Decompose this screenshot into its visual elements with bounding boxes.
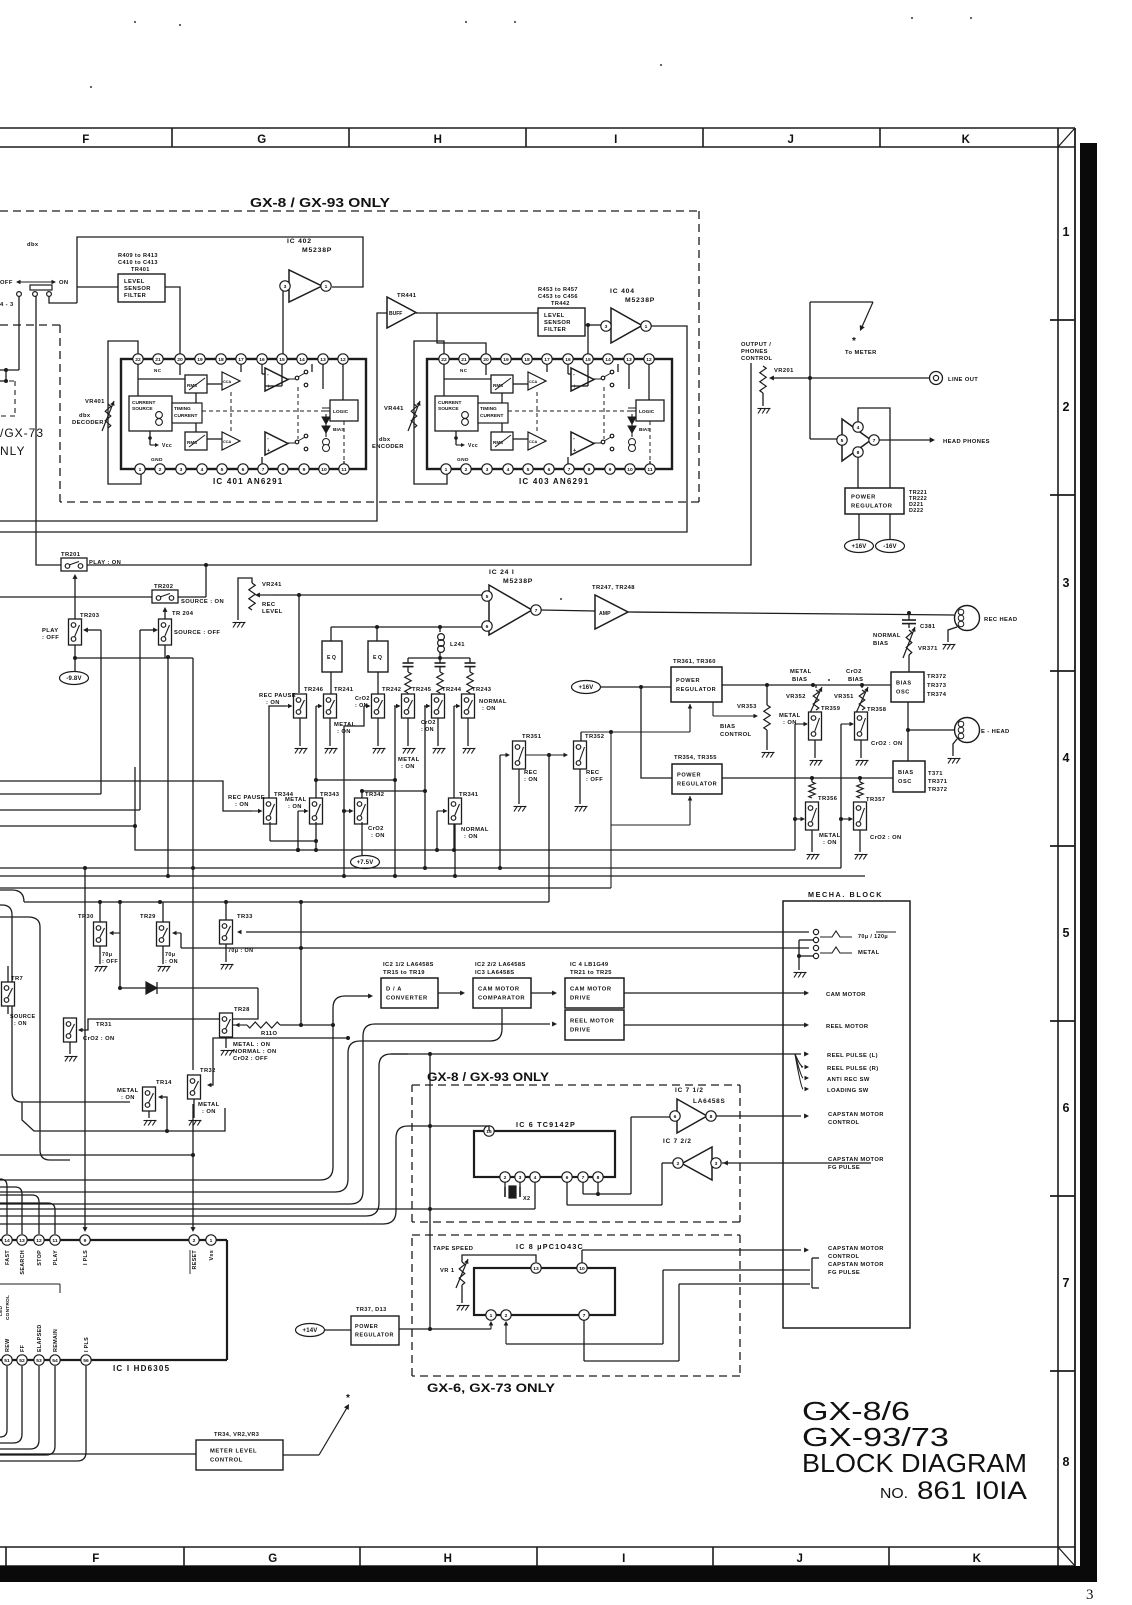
transistor switch TR202	[152, 584, 224, 605]
wire TR203 to TR201 arrow	[73, 574, 78, 619]
svg-text:TR357: TR357	[866, 797, 885, 803]
svg-text:NC: NC	[460, 368, 468, 373]
svg-text:VR371: VR371	[918, 646, 938, 652]
label CrO2 : ON below TR245	[421, 720, 436, 733]
svg-text:I PLS: I PLS	[83, 1250, 89, 1265]
svg-text:CrO2: CrO2	[846, 669, 862, 675]
wire IC404 output loop to left bus	[0, 326, 687, 532]
wire left rounded bus B	[0, 917, 70, 1160]
svg-text:-: -	[267, 436, 269, 442]
svg-text:dbx: dbx	[379, 437, 391, 443]
grounds under record switch row 1	[295, 718, 476, 754]
svg-text:IC 403 AN6291: IC 403 AN6291	[519, 477, 589, 486]
svg-text:TR201: TR201	[61, 552, 81, 558]
wire collector row y791	[360, 789, 427, 798]
svg-text:TR401: TR401	[131, 267, 150, 273]
svg-text:CrO2 : ON: CrO2 : ON	[83, 1036, 115, 1042]
svg-text:METAL : ON: METAL : ON	[233, 1042, 270, 1048]
svg-text:REC: REC	[524, 770, 538, 776]
svg-text:54: 54	[52, 1358, 58, 1364]
wire bundle w4 to reel pulse	[0, 1054, 408, 1216]
svg-text:REMAIN: REMAIN	[53, 1329, 59, 1352]
wire EQ2 to TR242	[377, 672, 379, 694]
wire +16V branch to regulator 2	[641, 687, 672, 778]
wire collector row y780	[314, 778, 397, 798]
svg-text:6: 6	[548, 467, 551, 473]
svg-text:56: 56	[83, 1358, 89, 1364]
svg-text:POWER: POWER	[677, 773, 701, 779]
wire IC401 pin22 loop to pin1	[108, 341, 141, 484]
wire into headphone pin5	[810, 438, 837, 440]
svg-text:/GX-73: /GX-73	[0, 426, 44, 440]
label TR372 TR373 TR374	[927, 674, 947, 698]
wire meter control to meter arrow	[283, 1393, 350, 1455]
svg-text:ELAPSED: ELAPSED	[37, 1324, 43, 1352]
svg-text:13: 13	[533, 1266, 539, 1272]
label CAPSTAN MOTOR CONTROL (ic8)	[828, 1246, 884, 1260]
wire VR241 wiper to IC241 pin5	[273, 593, 482, 597]
svg-text:I: I	[622, 1553, 626, 1565]
power regulator (phones) box	[845, 488, 904, 514]
403 RMS block lower	[491, 432, 513, 450]
svg-text:LED: LED	[0, 1305, 4, 1316]
svg-text:BIAS: BIAS	[792, 677, 807, 683]
svg-text:FILTER: FILTER	[544, 327, 567, 333]
wire input node to filter	[77, 286, 118, 288]
wire bundle w1 to D/A converter	[0, 994, 373, 1181]
wire diode line to TR31 control	[78, 988, 258, 1032]
svg-text:TR441: TR441	[397, 293, 417, 299]
op-amp IC7 1/2 LA6458S	[670, 1087, 726, 1133]
svg-text:3: 3	[1063, 576, 1070, 590]
svg-text:METAL: METAL	[198, 1102, 220, 1108]
wire IC6 pin6 to IC7 2/2	[567, 1163, 673, 1205]
transistor switch TR246	[294, 687, 324, 718]
wire IC241 output to AMP	[541, 610, 595, 611]
svg-text:GX-8 / GX-93 ONLY: GX-8 / GX-93 ONLY	[250, 196, 391, 210]
svg-text:1: 1	[1063, 225, 1070, 239]
label REC PAUSE : ON row1	[259, 693, 296, 706]
transistor switch TR357	[854, 797, 902, 852]
svg-text:5: 5	[486, 594, 489, 600]
svg-text:3: 3	[519, 1175, 522, 1181]
wire line out horizontal	[799, 377, 930, 379]
wire mecha row 70u	[237, 930, 809, 935]
svg-text:C381: C381	[920, 624, 936, 630]
transistor switch TR352	[574, 734, 605, 804]
svg-text:2: 2	[193, 1238, 196, 1244]
svg-text:REC: REC	[586, 770, 600, 776]
svg-text:M5238P: M5238P	[302, 247, 332, 254]
svg-text:18: 18	[218, 357, 224, 363]
403 op-amp upper	[571, 368, 594, 391]
label IC2 2/2 LA6458S IC3 LA6458S	[475, 962, 526, 976]
svg-text:BIAS: BIAS	[720, 724, 735, 730]
black border band bottom	[0, 1566, 1097, 1582]
svg-text:TR359: TR359	[821, 706, 841, 712]
svg-text:70μ: 70μ	[102, 952, 113, 958]
IC1 HD6305 chip outline	[0, 1240, 227, 1360]
svg-text:22: 22	[135, 357, 141, 363]
label R453 to R457 C453 to C456 TR442	[538, 287, 578, 307]
wire AMP output to rec head	[628, 611, 954, 615]
transistor switch TR242	[372, 687, 402, 718]
cam motor drive box	[565, 978, 624, 1008]
svg-text:*: *	[852, 336, 856, 347]
IC1 top pins	[2, 1235, 216, 1245]
ground below TR14	[144, 1120, 148, 1126]
svg-text:IC 401 AN6291: IC 401 AN6291	[213, 477, 283, 486]
svg-text:: ON: : ON	[401, 764, 415, 770]
transistor switch TR244	[432, 687, 462, 718]
svg-text:CCA: CCA	[223, 380, 231, 384]
403 CCA amp lower	[528, 432, 546, 450]
label NORMAL : ON right of TR243	[479, 699, 507, 712]
IC1 top pin labels	[5, 1250, 215, 1275]
resistor above TR356	[809, 778, 815, 798]
rec head	[948, 606, 1017, 643]
401 op-amp upper	[265, 368, 288, 391]
IC1 bottom pin labels	[5, 1324, 90, 1352]
svg-text:IC 8 μPC1O43C: IC 8 μPC1O43C	[516, 1242, 584, 1251]
svg-text:IC 4 LB1G49: IC 4 LB1G49	[570, 962, 609, 968]
svg-text:-: -	[267, 372, 269, 378]
svg-text:1: 1	[490, 1313, 493, 1319]
svg-text:GND: GND	[457, 457, 469, 463]
wire row1 control drops	[269, 706, 454, 876]
wire regulator3 output to IC8	[399, 1321, 493, 1329]
svg-text:TR372: TR372	[928, 787, 947, 793]
labels reel pulse anti rec loading	[827, 1053, 879, 1094]
svg-text:*: *	[346, 1393, 350, 1404]
wire left edge into TR202	[0, 596, 152, 598]
svg-text:TR361, TR360: TR361, TR360	[673, 659, 716, 665]
svg-text:J: J	[797, 1553, 804, 1565]
led control bracket	[0, 1284, 60, 1320]
401 top pins 22-12	[133, 354, 348, 373]
svg-text:NLY: NLY	[0, 444, 25, 458]
power regulator 2 box	[672, 764, 722, 794]
ground below TR31	[65, 1056, 69, 1062]
svg-text:9: 9	[84, 1238, 87, 1244]
ground below VR201	[758, 408, 762, 414]
svg-text:: OFF: : OFF	[42, 635, 59, 641]
svg-text:FILTER: FILTER	[124, 293, 147, 299]
svg-text:15: 15	[279, 357, 285, 363]
svg-text:FG PULSE: FG PULSE	[828, 1165, 860, 1171]
supply +7.5V	[351, 856, 380, 869]
svg-text:14: 14	[4, 1238, 10, 1244]
403 switch contacts upper	[594, 370, 614, 387]
ground below e-head	[948, 758, 952, 764]
svg-text:+: +	[573, 384, 576, 390]
svg-text:CCA: CCA	[223, 440, 231, 444]
wire dbx switch to play line	[36, 296, 61, 565]
svg-text:VR351: VR351	[834, 694, 854, 700]
wire VR241 node down to TR246	[298, 595, 300, 693]
ground below VR353	[762, 752, 766, 758]
svg-text:IC 402: IC 402	[287, 238, 312, 245]
wire IC6 pin16 to +14V riser	[428, 1124, 489, 1131]
svg-text:TR442: TR442	[551, 301, 570, 307]
svg-text:IC 24 I: IC 24 I	[489, 569, 515, 576]
wire dbx to filter input node	[49, 296, 77, 303]
401 CCA amp upper	[222, 372, 240, 390]
wire BUFF node to IC403 pin 20	[437, 313, 486, 354]
transistor switch TR32	[188, 1068, 220, 1118]
svg-text:TR244: TR244	[442, 687, 462, 693]
svg-text:: ON: : ON	[121, 1095, 135, 1101]
svg-text:12: 12	[340, 357, 346, 363]
svg-text:3: 3	[486, 467, 489, 473]
svg-text:+: +	[267, 384, 270, 390]
transistor switch TR343	[310, 792, 340, 824]
label IC4 LB1649 TR21 to TR25	[570, 962, 612, 976]
bias osc 1 box	[891, 672, 924, 702]
wire comparator to cam motor drive	[531, 991, 557, 996]
403 Vcc arrow	[454, 436, 478, 449]
svg-text:: OFF: : OFF	[102, 959, 118, 965]
svg-text:REGULATOR: REGULATOR	[676, 687, 716, 693]
401 RMS block lower	[185, 432, 207, 450]
svg-text:-: -	[573, 436, 575, 442]
meter level control box	[196, 1440, 283, 1470]
svg-text:8: 8	[1063, 1455, 1070, 1469]
svg-text:C410 to C413: C410 to C413	[118, 260, 158, 266]
wire IC403 pin22 loop to pin1	[414, 341, 447, 484]
wire IC8 pin2 loop	[504, 1270, 810, 1344]
svg-text:SOURCE : OFF: SOURCE : OFF	[174, 630, 220, 636]
401 internal wires	[138, 364, 344, 464]
svg-text:BIAS: BIAS	[873, 641, 888, 647]
label T371 TR371 TR372	[928, 771, 948, 793]
svg-text:BIAS: BIAS	[898, 770, 914, 776]
svg-text:20: 20	[177, 357, 183, 363]
svg-text:+14V: +14V	[303, 1328, 318, 1334]
svg-text:LEVEL: LEVEL	[262, 609, 283, 615]
label CrO2 : ON above TR242	[355, 696, 370, 709]
svg-text:7: 7	[582, 1175, 585, 1181]
label NORMAL : ON below TR341	[461, 827, 489, 840]
wire feedback loop IC402 to input node	[77, 237, 363, 303]
diode D	[118, 933, 258, 994]
svg-text:LOADING SW: LOADING SW	[827, 1088, 869, 1094]
svg-text:16: 16	[565, 357, 571, 363]
label CrO2 BIAS	[846, 669, 863, 683]
svg-text:IC 6 TC9142P: IC 6 TC9142P	[516, 1120, 576, 1129]
filter TR442 level sensor filter box	[538, 308, 585, 336]
wire TR203 TR204 emitters to -9.8V	[73, 645, 165, 672]
svg-text:IC 7 2/2: IC 7 2/2	[663, 1138, 692, 1145]
401 RMS block upper	[185, 375, 207, 393]
svg-text:H: H	[444, 1553, 453, 1565]
svg-text:5: 5	[527, 467, 530, 473]
svg-text:TR15 to TR19: TR15 to TR19	[383, 970, 425, 976]
svg-text:53: 53	[36, 1358, 42, 1364]
transistor switch TR358	[855, 707, 903, 758]
svg-text:CONVERTER: CONVERTER	[386, 995, 428, 1001]
svg-text:18: 18	[524, 357, 530, 363]
401 logic block	[330, 400, 358, 421]
svg-text:19: 19	[197, 357, 203, 363]
wire bias bus regulator1 to bias osc 1	[722, 683, 891, 687]
wire left edge stub y826	[0, 824, 137, 828]
svg-text:CAM MOTOR: CAM MOTOR	[570, 987, 612, 993]
svg-text:12: 12	[36, 1238, 42, 1244]
svg-text:PLAY: PLAY	[53, 1250, 59, 1265]
transistor switch TR341	[449, 792, 479, 824]
svg-text:9: 9	[303, 467, 306, 473]
op-amp IC404 M5238P	[601, 288, 655, 343]
svg-text:NORMAL: NORMAL	[873, 633, 901, 639]
svg-text:9: 9	[609, 467, 612, 473]
svg-text:POWER: POWER	[676, 678, 700, 684]
svg-text:NC: NC	[154, 368, 162, 373]
svg-text:: ON: : ON	[202, 1109, 216, 1115]
filter TR401 level sensor filter box	[118, 274, 165, 302]
wires IC1 top-left pins to left edge	[0, 1179, 55, 1234]
svg-text:ON: ON	[59, 280, 69, 286]
svg-text:14: 14	[605, 357, 611, 363]
transistor switch TR359	[779, 706, 841, 758]
svg-text:GND: GND	[151, 457, 163, 463]
svg-text:5: 5	[221, 467, 224, 473]
401 internal dashed control lines	[202, 387, 344, 461]
op-amp IC7 2/2	[663, 1138, 721, 1180]
wire bus row C	[0, 874, 865, 878]
svg-text:M5238P: M5238P	[503, 578, 533, 585]
wire headphone output	[879, 437, 990, 445]
wire meter level line	[0, 1453, 196, 1455]
svg-text:CURRENT: CURRENT	[480, 413, 504, 419]
svg-text:ANTI REC SW: ANTI REC SW	[827, 1077, 870, 1083]
wire bus row A +7.5V	[135, 767, 795, 852]
eq box 2	[368, 627, 388, 672]
label To METER	[845, 336, 877, 356]
svg-text:G: G	[268, 1553, 277, 1565]
svg-text:REEL PULSE (L): REEL PULSE (L)	[827, 1053, 878, 1059]
transistor switch TR30	[78, 902, 118, 965]
svg-text:14: 14	[299, 357, 305, 363]
svg-text:TR21 to TR25: TR21 to TR25	[570, 970, 612, 976]
svg-text:K: K	[973, 1553, 982, 1565]
wire bundle w2 to comparator	[0, 1009, 502, 1192]
svg-text:SOURCE: SOURCE	[10, 1014, 35, 1020]
dashed boundary GX-8/GX-93 only region	[0, 211, 699, 502]
wire TR204 to TR202 arrow	[163, 607, 168, 619]
wire reel pulse L with branches	[391, 1052, 809, 1092]
svg-text:+16V: +16V	[579, 685, 594, 691]
border frame right column with row numbers	[1050, 128, 1075, 1566]
svg-text:8: 8	[282, 467, 285, 473]
svg-text:8: 8	[588, 467, 591, 473]
op-amp IC402 M5238P	[280, 238, 332, 302]
svg-text:8: 8	[857, 450, 860, 456]
wire feedback into regulator1	[581, 704, 692, 734]
svg-text:CURRENT: CURRENT	[132, 400, 156, 406]
potentiometer VR352	[786, 685, 822, 713]
svg-text:REC HEAD: REC HEAD	[984, 617, 1017, 623]
svg-text:6: 6	[566, 1175, 569, 1181]
403 RMS block upper	[491, 375, 513, 393]
wire regulator2 to bias osc 2	[722, 776, 893, 780]
border frame top band	[0, 128, 1075, 147]
svg-text:FF: FF	[20, 1344, 26, 1352]
svg-text:7: 7	[1063, 1276, 1070, 1290]
svg-text:IC2 2/2 LA6458S: IC2 2/2 LA6458S	[475, 962, 526, 968]
svg-text:SENSOR: SENSOR	[544, 320, 571, 326]
svg-text:COMPARATOR: COMPARATOR	[478, 995, 525, 1001]
svg-text:C453 to C456: C453 to C456	[538, 294, 578, 300]
svg-text:10: 10	[579, 1266, 585, 1272]
svg-text:CAM MOTOR: CAM MOTOR	[478, 987, 520, 993]
bias osc 2 box	[893, 761, 925, 792]
svg-text:1: 1	[645, 324, 648, 330]
svg-text:K: K	[962, 134, 971, 146]
transistor switch TR201	[61, 552, 121, 571]
reel motor drive box	[565, 1010, 624, 1040]
svg-text:CAPSTAN MOTOR: CAPSTAN MOTOR	[828, 1157, 884, 1163]
svg-text:METAL: METAL	[398, 757, 420, 763]
svg-text:1: 1	[445, 467, 448, 473]
wire arrow into TR203 from control	[0, 628, 101, 795]
svg-text:: ON: : ON	[482, 706, 496, 712]
svg-text:VR201: VR201	[774, 368, 794, 374]
svg-text:CrO2 : OFF: CrO2 : OFF	[233, 1056, 268, 1062]
svg-text:TR372: TR372	[927, 674, 946, 680]
svg-text:TR373: TR373	[927, 683, 947, 689]
svg-text:SEARCH: SEARCH	[20, 1250, 26, 1275]
black border bar right	[1080, 143, 1097, 1581]
wire line out junction vertical	[808, 302, 812, 439]
svg-text:3: 3	[1086, 1587, 1094, 1600]
403 current source block	[435, 396, 478, 431]
wire feedback into regulator2	[611, 732, 692, 888]
svg-text:2: 2	[505, 1313, 508, 1319]
ground below rec head	[943, 644, 947, 650]
wire BUFF output to level sensor filter 2	[416, 312, 538, 314]
svg-text:: OFF: : OFF	[586, 777, 603, 783]
svg-text:TR34, VR2,VR3: TR34, VR2,VR3	[214, 1432, 259, 1438]
svg-text:5: 5	[1063, 926, 1070, 940]
svg-text:20: 20	[483, 357, 489, 363]
svg-text:4: 4	[201, 467, 204, 473]
svg-text:NORMAL: NORMAL	[461, 827, 489, 833]
svg-text:BUFF: BUFF	[389, 311, 402, 317]
svg-text:GX-8 / GX-93 ONLY: GX-8 / GX-93 ONLY	[427, 1070, 549, 1084]
svg-text:: ON: : ON	[421, 727, 434, 733]
svg-text:NO.: NO.	[880, 1485, 908, 1502]
svg-text:TR37, D13: TR37, D13	[356, 1307, 387, 1313]
svg-text:M5238P: M5238P	[625, 297, 655, 304]
wire filter2 output to IC404	[585, 323, 601, 354]
wire arrow into IC1 pin9	[83, 868, 88, 1232]
403 bottom pins 1-11	[441, 464, 655, 474]
svg-text:TR245: TR245	[412, 687, 432, 693]
IC 401 AN6291 chip outline	[121, 359, 366, 469]
svg-text:13: 13	[19, 1238, 25, 1244]
svg-text:POWER: POWER	[355, 1324, 378, 1330]
svg-text:REEL MOTOR: REEL MOTOR	[570, 1019, 615, 1025]
svg-text:REC PAUSE: REC PAUSE	[259, 693, 296, 699]
svg-text:TR242: TR242	[382, 687, 401, 693]
svg-text:+7.5V: +7.5V	[357, 860, 374, 866]
capacitor C381	[902, 613, 936, 630]
svg-text:RESET: RESET	[192, 1250, 198, 1270]
401 op-amp lower	[265, 432, 288, 455]
svg-text:SENSOR: SENSOR	[124, 286, 151, 292]
svg-text:16: 16	[259, 357, 265, 363]
